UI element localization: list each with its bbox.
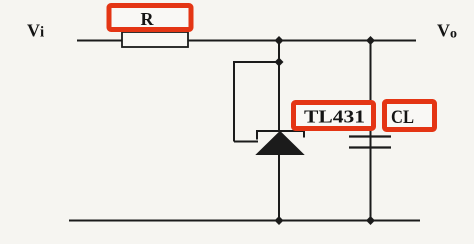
annotation box around TL431 label [294,103,374,129]
wire top rail right (R to Vo) [188,40,416,42]
svg-text:R: R [141,9,155,29]
wire gate vertical [233,61,235,142]
resistor R body [122,32,188,47]
node junction top-rail / TL431 [275,36,284,45]
node junction top rail / CL [366,36,375,45]
node junction gate tap [275,58,284,67]
wire bottom rail [69,220,420,222]
wire gate tap horizontal [234,61,279,63]
TL431 U1 cathode bar [257,131,304,140]
node junction bottom rail / TL431 [275,216,284,225]
capacitor CL top plate [349,135,391,137]
node junction bottom rail / CL [366,216,375,225]
svg-text:TL431: TL431 [304,107,365,127]
annotation box around CL label [385,102,435,130]
wire TL431 anode vertical [278,154,280,221]
wire top rail left (Vi to R) [77,40,123,42]
wire CL vertical [370,41,372,221]
wire TL431 cathode vertical [278,41,280,133]
wire gate to reference pin [234,141,258,143]
capacitor CL bottom plate [349,146,391,148]
TL431 U1 triangle [257,132,304,155]
svg-text:CL: CL [391,107,414,128]
annotation box around R label [109,6,191,30]
